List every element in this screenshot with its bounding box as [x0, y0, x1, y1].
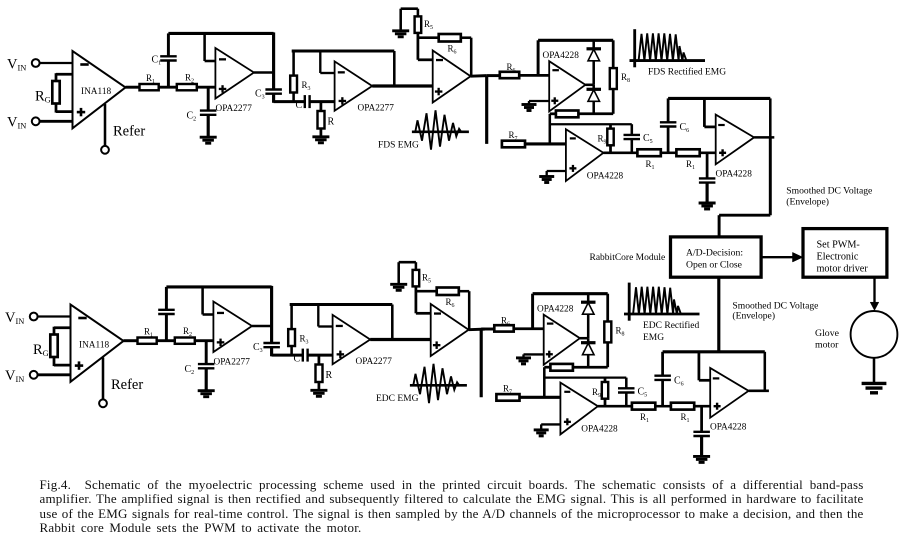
wire third op-amp output — [469, 328, 485, 332]
svg-text:R1: R1 — [686, 159, 695, 171]
svg-text:C1: C1 — [152, 55, 162, 67]
svg-text:OPA4228: OPA4228 — [587, 171, 624, 181]
resistor R1 — [140, 84, 159, 90]
op-amp U1 INA118 — [73, 51, 126, 128]
resistor R to ground — [318, 355, 321, 364]
wire smoothing output — [749, 390, 769, 393]
ground top of R5 network — [392, 29, 409, 32]
wire INA118 output — [124, 339, 138, 342]
svg-text:Smoothed DC Voltage: Smoothed DC Voltage — [786, 185, 872, 196]
svg-text:Electronic: Electronic — [817, 252, 859, 263]
wire R6 to rectifier — [514, 327, 544, 330]
resistor R1 smoothing first — [632, 403, 655, 410]
svg-text:Open or Close: Open or Close — [686, 259, 742, 270]
arrow PWM block to motor — [873, 277, 875, 303]
wire OPA2277-2 output to third op-amp — [370, 338, 431, 341]
svg-text:OPA4228: OPA4228 — [543, 51, 580, 61]
wire OPA2277-2 output to third op-amp — [372, 84, 433, 87]
svg-text:R: R — [326, 370, 333, 381]
ground below smoothing capacitor — [693, 455, 710, 458]
resistor RG — [56, 73, 73, 76]
op-amp OPA4228 smoothing (EDC channel) — [710, 368, 748, 418]
node split to R6 and R7 — [480, 329, 483, 397]
svg-text:OPA2277: OPA2277 — [356, 357, 393, 367]
wire inverting input OPA2277-1 — [205, 60, 216, 63]
Refer terminal — [104, 104, 107, 147]
resistor R6 feedback — [416, 290, 437, 293]
resistor R6 series — [500, 72, 519, 78]
wire R6 to rectifier — [519, 74, 549, 77]
ground below smoothing capacitor — [699, 202, 716, 205]
resistor R5 — [417, 9, 420, 17]
svg-text:motor: motor — [815, 339, 839, 350]
svg-text:C6: C6 — [674, 375, 684, 387]
svg-text:R9: R9 — [592, 387, 601, 399]
wire inverting input smoothing op-amp — [698, 352, 701, 381]
capacitor C2 — [205, 341, 208, 365]
svg-text:VIN: VIN — [7, 57, 26, 73]
ground non-inverting input rectifier — [529, 100, 549, 102]
feedback top wire smoothing op-amp — [668, 97, 770, 100]
svg-text:Glove: Glove — [815, 328, 840, 339]
capacitor C — [304, 95, 306, 108]
capacitor C1 — [167, 61, 170, 88]
svg-text:R1: R1 — [681, 412, 690, 424]
A/D decision block — [671, 237, 762, 277]
wire C to op-amp — [308, 354, 333, 357]
svg-text:RG: RG — [33, 342, 49, 358]
wire INA118 output — [126, 86, 140, 89]
svg-text:Refer: Refer — [113, 124, 145, 140]
ground below C2 — [200, 136, 217, 139]
wire third op-amp output — [471, 74, 487, 78]
wire gain stage output — [598, 405, 632, 408]
capacitor C5 — [631, 124, 634, 135]
wire envelope to A/D converter — [769, 137, 772, 215]
resistor rectifier feedback to gain stage — [550, 364, 573, 371]
input terminal V_IN+ EDC — [30, 313, 38, 321]
svg-text:R9: R9 — [598, 134, 607, 146]
capacitor C2 — [207, 87, 210, 111]
diode D2 — [592, 85, 595, 90]
resistor R6 series — [494, 325, 513, 331]
ground below R — [310, 389, 327, 392]
wire rectifier output — [585, 84, 593, 87]
capacitor C1 — [165, 314, 168, 341]
resistor R1 smoothing second — [676, 149, 699, 156]
svg-text:R8: R8 — [621, 72, 630, 84]
feedback wire third op-amp — [470, 38, 473, 76]
svg-text:R1: R1 — [640, 412, 649, 424]
PWM motor driver block — [803, 229, 887, 278]
resistor R1 smoothing first — [637, 149, 660, 156]
wire OPA2277-1 output — [254, 71, 274, 74]
svg-text:INA118: INA118 — [81, 87, 111, 97]
op-amp OPA2277 second (EDC channel) — [333, 315, 371, 364]
node output to C3 — [272, 32, 275, 90]
resistor R1 smoothing second — [671, 403, 694, 410]
resistor R to ground — [320, 102, 323, 111]
svg-text:FDS EMG: FDS EMG — [378, 140, 419, 150]
resistor rectifier feedback to gain stage — [556, 111, 579, 118]
svg-text:R8: R8 — [616, 325, 625, 337]
input terminal V_IN- EDC — [30, 371, 38, 379]
svg-text:OPA2277: OPA2277 — [216, 104, 253, 114]
wire motor to ground — [873, 358, 876, 383]
ground below C2 — [198, 389, 215, 392]
wire gain stage output — [603, 152, 637, 155]
diode D1 — [592, 40, 595, 49]
svg-text:Set PWM-: Set PWM- — [817, 240, 861, 251]
svg-text:RabbitCore Module: RabbitCore Module — [590, 253, 666, 263]
svg-text:FDS Rectified EMG: FDS Rectified EMG — [648, 67, 726, 78]
resistor R3 — [292, 51, 295, 76]
feedback wire from output OPA2277-2 — [391, 305, 394, 340]
svg-text:R1: R1 — [646, 159, 655, 171]
wire inverting input OPA2277-2 — [318, 325, 332, 327]
top wire rectifier — [538, 39, 613, 42]
svg-text:C: C — [296, 100, 303, 111]
FDS rectified EMG waveform sketch — [633, 29, 636, 67]
wire R1 to smoothing op-amp — [700, 152, 716, 155]
svg-text:R: R — [328, 117, 335, 128]
svg-text:OPA2277: OPA2277 — [214, 358, 251, 368]
wire inverting input third op-amp — [416, 312, 431, 315]
feedback top wire OPA2277-2 — [290, 303, 393, 306]
svg-text:R3: R3 — [300, 334, 309, 346]
wire OPA2277-1 output — [252, 325, 272, 328]
op-amp third stage (EDC channel) — [431, 304, 469, 356]
svg-text:R2: R2 — [183, 326, 192, 338]
wire between R1 resistors — [661, 152, 677, 155]
svg-text:motor driver: motor driver — [817, 263, 869, 274]
input terminal V_IN- FDS — [32, 117, 40, 125]
capacitor C — [302, 349, 304, 362]
resistor R8 — [612, 40, 615, 68]
svg-text:R5: R5 — [422, 273, 431, 285]
svg-text:C5: C5 — [638, 386, 648, 398]
capacitor C6 — [661, 380, 664, 406]
wire R1 to R2 — [159, 86, 177, 89]
svg-text:OPA4228: OPA4228 — [716, 169, 753, 179]
resistor RG — [54, 326, 71, 329]
arrow A/D to PWM block — [761, 256, 795, 258]
resistor R3 — [290, 305, 293, 330]
top wire rectifier — [533, 292, 608, 295]
wire V_IN- to INA118 — [39, 120, 73, 123]
feedback top wire OPA2277-1 — [168, 32, 273, 35]
wire V_IN- to INA118 — [37, 373, 71, 376]
svg-text:(Envelope): (Envelope) — [786, 197, 829, 208]
svg-text:C3: C3 — [255, 89, 265, 101]
resistor R2 — [177, 84, 197, 90]
capacitor at non-inverting input smoothing — [700, 406, 703, 431]
feedback wire third op-amp — [468, 291, 471, 329]
feedback top wire OPA2277-1 — [166, 285, 271, 288]
svg-text:VIN: VIN — [5, 368, 24, 384]
feedback wire rectifier — [531, 294, 534, 329]
op-amp OPA4228 smoothing — [716, 115, 754, 165]
svg-text:VIN: VIN — [5, 310, 24, 326]
wire summing node to R9 C5 — [550, 123, 632, 125]
svg-text:RG: RG — [35, 89, 51, 105]
wire C to op-amp — [310, 100, 335, 103]
wire inverting input third op-amp — [418, 58, 433, 61]
resistor R7 — [502, 141, 525, 148]
diode D2 — [587, 338, 590, 343]
ground top of R5 network — [390, 283, 407, 286]
svg-text:Refer: Refer — [111, 377, 143, 393]
resistor R9 — [609, 124, 612, 128]
svg-text:C3: C3 — [253, 342, 263, 354]
input terminal V_IN+ FDS — [32, 59, 40, 67]
resistor R8 — [606, 294, 609, 322]
glove motor M1 — [851, 311, 898, 358]
wire C3 to C — [272, 354, 303, 357]
wire rectifier bottom — [578, 112, 613, 115]
svg-text:OPA2277: OPA2277 — [358, 104, 395, 114]
svg-text:C: C — [294, 354, 301, 365]
svg-text:R3: R3 — [302, 80, 311, 92]
wire inverting input OPA2277-1 — [203, 313, 214, 316]
wire between R1 resistors — [655, 405, 671, 408]
ground below R — [312, 135, 329, 138]
feedback top wire OPA2277-2 — [292, 50, 395, 53]
wire V_IN+ to INA118 — [39, 62, 73, 64]
capacitor C5 — [625, 378, 628, 389]
ground non-inverting input rectifier — [524, 353, 544, 355]
svg-text:VIN: VIN — [7, 115, 26, 131]
wire R1 to smoothing op-amp — [694, 405, 710, 408]
feedback wire smoothing op-amp — [769, 98, 772, 137]
feedback wire smoothing op-amp — [764, 352, 767, 391]
EDC EMG waveform sketch — [410, 384, 467, 387]
capacitor C3 — [265, 88, 282, 90]
wire rectifier output — [580, 337, 588, 340]
svg-text:R2: R2 — [185, 73, 194, 85]
feedback wire from output OPA2277-2 — [393, 51, 396, 86]
diode D1 — [587, 294, 590, 303]
svg-text:C2: C2 — [187, 111, 197, 123]
op-amp OPA2277 first — [215, 48, 254, 99]
op-amp OPA4228 gain stage (EDC channel) — [560, 383, 598, 435]
resistor R7 — [496, 394, 519, 401]
svg-text:EMG: EMG — [643, 333, 664, 343]
svg-text:R5: R5 — [424, 19, 433, 31]
EDC rectified EMG waveform sketch — [628, 283, 631, 321]
wire C3 to C — [274, 100, 305, 103]
op-amp third stage — [433, 51, 471, 103]
wire R2 to op-amp — [195, 339, 214, 342]
svg-text:R6: R6 — [448, 44, 457, 56]
op-amp OPA4228 gain stage — [566, 129, 604, 181]
wire inverting input OPA2277-2 — [320, 72, 334, 74]
op-amp OPA4228 rectifier (EDC channel) — [544, 315, 580, 365]
svg-text:INA118: INA118 — [79, 341, 109, 351]
op-amp OPA2277 first (EDC channel) — [213, 302, 252, 353]
feedback top wire smoothing op-amp — [663, 350, 765, 353]
op-amp OPA2277 second — [335, 61, 373, 110]
svg-text:A/D-Decision:: A/D-Decision: — [686, 248, 743, 259]
svg-text:(Envelope): (Envelope) — [732, 310, 775, 321]
wire rectifier to summing node — [549, 114, 552, 144]
FDS EMG waveform sketch — [412, 131, 469, 134]
wire R1 to R2 — [157, 339, 175, 342]
resistor R9 — [604, 378, 607, 382]
resistor R6 feedback — [418, 36, 439, 39]
wire rectifier bottom — [573, 366, 608, 369]
feedback wire rectifier — [537, 40, 540, 75]
wire inverting input smoothing op-amp — [703, 98, 706, 127]
ground non-inverting input gain stage — [541, 423, 560, 425]
wire rectifier to summing node — [543, 367, 546, 397]
svg-text:OPA4228: OPA4228 — [537, 304, 574, 314]
ground non-inverting input gain stage — [547, 170, 566, 172]
capacitor C3 — [263, 342, 280, 344]
wire smoothing output — [754, 136, 774, 139]
svg-text:R6: R6 — [446, 297, 455, 309]
svg-text:EDC Rectified: EDC Rectified — [643, 320, 699, 331]
op-amp U1 INA118 (EDC channel) — [71, 305, 124, 382]
svg-text:C6: C6 — [680, 122, 690, 134]
resistor R5 — [415, 262, 418, 270]
svg-text:OPA4228: OPA4228 — [581, 425, 618, 435]
resistor R2 — [175, 338, 195, 344]
wire R2 to op-amp — [197, 86, 216, 89]
resistor R1 — [138, 338, 157, 344]
capacitor at non-inverting input smoothing — [706, 153, 709, 178]
capacitor C6 — [667, 127, 670, 153]
svg-text:C2: C2 — [185, 364, 195, 376]
Refer terminal — [102, 358, 105, 401]
svg-text:C5: C5 — [643, 133, 653, 145]
wire V_IN+ to INA118 — [37, 315, 71, 317]
node output to C3 — [270, 286, 273, 344]
op-amp OPA4228 rectifier — [549, 61, 585, 111]
wire summing node to R9 C5 — [544, 376, 626, 378]
svg-text:OPA4228: OPA4228 — [710, 423, 747, 433]
svg-text:EDC EMG: EDC EMG — [376, 394, 419, 404]
wire envelope to A/D converter (EDC) — [717, 277, 720, 352]
node split to R6 and R7 — [485, 76, 488, 144]
ground below motor — [862, 382, 887, 385]
